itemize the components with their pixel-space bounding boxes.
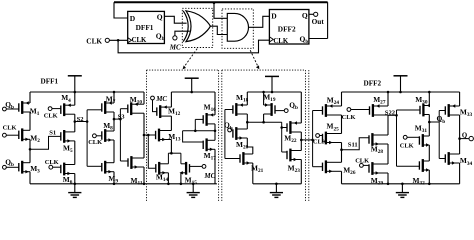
svg-text:CLK: CLK (342, 114, 356, 121)
svg-text:DFF2: DFF2 (364, 79, 382, 87)
node S11 (340, 138, 369, 151)
transistor M8 (102, 121, 114, 142)
transistor M17 (203, 138, 216, 161)
Out terminal (309, 12, 324, 26)
input MC to M12 (151, 95, 168, 111)
svg-text:Q: Q (302, 11, 308, 20)
wire M12-M13 column (170, 92, 172, 153)
wire DFF2 Qb to feedback (309, 38, 328, 40)
wire M10-M11 column (143, 92, 145, 184)
input Qb to M3 (3, 157, 19, 169)
svg-text:DFF1: DFF1 (136, 23, 154, 32)
node S22 (385, 109, 420, 166)
ground rail box2 (253, 183, 301, 186)
ground rail DFF2 (342, 183, 460, 186)
wire M18-M20 column (246, 92, 249, 129)
wire M7-M8-M9 column (113, 92, 115, 184)
transistor M1 (19, 101, 40, 117)
svg-text:MC: MC (155, 95, 167, 103)
input MC to M15 (190, 165, 216, 181)
transistor M20 (233, 127, 249, 151)
wire M21 source to ground (252, 163, 254, 184)
transistor M30 (415, 95, 430, 117)
transistor M27 (370, 95, 389, 117)
svg-text:CLK: CLK (88, 139, 102, 146)
svg-text:Q: Q (462, 132, 467, 139)
transistor M12 (157, 105, 181, 118)
VDD rail DFF2 (342, 91, 460, 94)
transistor M25 (323, 122, 342, 145)
wire M1-M2-M3 column (29, 92, 31, 184)
transistor M4 (61, 93, 75, 116)
wire M4-M5-M6 column (74, 92, 76, 184)
transistor M7 (102, 95, 116, 114)
transistor M3 (19, 161, 40, 175)
wire M20 to M21 (247, 138, 253, 154)
wire CLK distribution to DFF2 (117, 39, 270, 53)
svg-text:Out: Out (312, 17, 325, 26)
VDD supply box1 (185, 78, 199, 92)
transistor M24 (323, 95, 342, 117)
input CLK to M8 (88, 134, 102, 146)
wire M14 source to ground (167, 173, 169, 184)
transistor M26 (323, 160, 356, 176)
transistor M23 (287, 149, 301, 174)
transistor M6 (61, 163, 75, 186)
transistor M9 (102, 161, 119, 185)
svg-text:CLK: CLK (86, 36, 102, 45)
input Qb to M19 (275, 100, 298, 112)
leader line to dashed box 2 (250, 50, 259, 69)
AND gate U2 (dashed box) (222, 9, 253, 48)
svg-text:CLK: CLK (273, 38, 288, 45)
transistor M18 (233, 93, 249, 116)
svg-text:CLK: CLK (132, 37, 147, 44)
input CLK to M27 (342, 108, 370, 121)
VDD supply DFF1 (68, 76, 82, 92)
D flip-flop DFF1 (block) (128, 11, 165, 44)
wire M24-M25-M26 column (341, 92, 343, 184)
ground symbol box1 (187, 184, 200, 198)
ground symbol DFF1 (68, 184, 81, 198)
svg-text:CLK: CLK (45, 159, 59, 166)
D flip-flop DFF2 (block) (269, 10, 309, 46)
svg-text:S1: S1 (49, 129, 56, 136)
svg-text:CLK: CLK (313, 139, 327, 146)
wire tap from feedback to AND gate upper input (213, 2, 228, 19)
transistor M21 (240, 152, 264, 174)
svg-text:D: D (271, 11, 277, 20)
wire DFF1 Q to XOR input (164, 16, 186, 23)
transistor M31 (415, 123, 430, 147)
transistor M32 (413, 159, 430, 187)
svg-text:CLK: CLK (355, 158, 369, 165)
VDD rail box2 (247, 91, 301, 94)
svg-text:S2: S2 (77, 116, 85, 123)
node S1 (29, 129, 61, 150)
ground symbol box2 (270, 184, 283, 198)
input CLK to M2 (3, 124, 19, 137)
svg-text:DFF2: DFF2 (278, 25, 296, 34)
transistor M28 (369, 133, 388, 155)
svg-text:S3: S3 (118, 113, 126, 120)
node S3 (113, 109, 128, 161)
wire M15 source to ground (180, 173, 182, 184)
wire box2 internal node to M22/M23 gates (247, 122, 287, 152)
node box1 output (183, 119, 217, 142)
wire M16-M17 column (214, 92, 216, 184)
wire M18/M21 gate input (225, 110, 240, 159)
transistor M33 (445, 104, 472, 118)
transistor M13 (156, 129, 181, 143)
wire XOR output to AND input (210, 26, 227, 34)
ground symbol DFF2 (396, 184, 409, 198)
svg-text:CLK: CLK (400, 142, 414, 149)
svg-text:S22: S22 (385, 109, 396, 116)
svg-text:CLK: CLK (3, 124, 17, 131)
ground rail DFF1+box1 (30, 183, 217, 186)
transistor M5 (61, 130, 75, 154)
input CLK to M4 (44, 107, 61, 120)
VDD rail DFF1 (30, 91, 144, 94)
VDD rail box1 (171, 91, 215, 94)
svg-text:MC: MC (203, 172, 215, 180)
wire AND output to DFF2 D (249, 16, 270, 27)
input CLK to M31 (400, 135, 420, 149)
transistor M15 (mirrored) (180, 162, 198, 186)
transistor M10 (128, 95, 144, 115)
dashed box 1 (XOR transistor detail) (147, 70, 219, 201)
input Qb to M1 (3, 100, 19, 111)
VDD supply box2 (265, 76, 279, 92)
transistor M19 (mirrored) (263, 93, 276, 116)
wire M19 column (262, 92, 265, 123)
input Qb to M20 (224, 121, 233, 132)
svg-text:S11: S11 (348, 141, 358, 148)
svg-text:DFF1: DFF1 (41, 77, 59, 85)
VDD supply DFF2 (394, 76, 408, 92)
MC input terminal (top) (169, 31, 190, 51)
transistor M16 (203, 102, 216, 125)
leader line to dashed box 1 (183, 49, 198, 70)
transistor M34 (445, 152, 472, 167)
transistor M14 (156, 162, 169, 183)
wire DFF1 output to box1 gates (143, 134, 156, 169)
svg-text:CLK: CLK (44, 112, 58, 119)
dashed box 2 (AND transistor detail) (222, 70, 309, 201)
transistor M2 (19, 128, 40, 144)
XOR gate U1 (dashed box) (182, 8, 212, 47)
wire M27-M28-M29 column (387, 92, 389, 184)
input CLK to M25 (313, 134, 327, 146)
wire M22-M23 column (300, 92, 302, 184)
transistor M22 (284, 121, 301, 144)
svg-text:Q: Q (157, 13, 163, 22)
input CLK to M6 (45, 159, 61, 169)
svg-text:MC: MC (169, 43, 181, 51)
node Qb internal DFF2 (428, 111, 445, 159)
wire box2 output to DFF2 input (300, 111, 323, 167)
input CLK to M29 (355, 158, 369, 168)
wire M33-M34 column (459, 92, 461, 184)
wire M13 to M14/M15 drains (168, 152, 181, 164)
transistor M29 (369, 162, 388, 187)
wire M30-M31-M32 column (428, 92, 430, 184)
node S2 (74, 110, 102, 167)
svg-text:D: D (130, 14, 136, 23)
CLK input terminal (86, 36, 127, 45)
output Q terminal (458, 132, 473, 141)
transistor M11 (128, 156, 144, 187)
wire feedback from DFF2 Qb to DFF1 D (top) (114, 2, 328, 38)
